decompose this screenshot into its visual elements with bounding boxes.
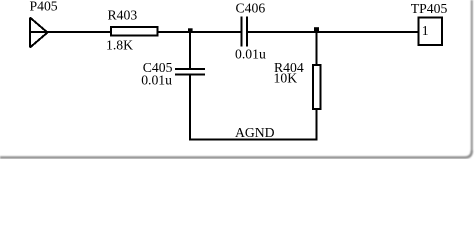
svg-text:0.01u: 0.01u [141,72,172,87]
svg-text:R403: R403 [108,8,138,23]
svg-text:AGND: AGND [235,125,275,140]
svg-text:10K: 10K [274,71,298,86]
svg-text:C406: C406 [236,1,266,16]
svg-text:1.8K: 1.8K [106,38,133,53]
svg-text:TP405: TP405 [411,1,448,16]
svg-text:0.01u: 0.01u [235,47,266,62]
svg-text:P405: P405 [30,0,58,14]
svg-text:1: 1 [422,23,429,38]
